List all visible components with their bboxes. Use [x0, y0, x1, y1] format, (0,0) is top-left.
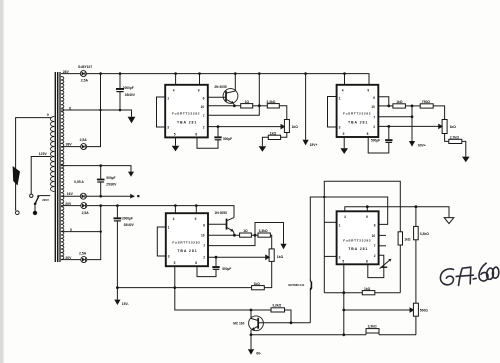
junction rail B / rail C crossing	[323, 196, 325, 198]
node 20V (upper)	[65, 202, 72, 206]
wire U2 pin10 to R4	[378, 105, 393, 107]
wire U2 pins 1-3 bracket	[328, 97, 337, 128]
resistor R6 2,7kohm	[449, 135, 462, 143]
node 0 (primary)	[47, 113, 49, 117]
wire R13 to feedback line	[399, 245, 401, 293]
wire +rail 28V rectified	[86, 74, 369, 85]
svg-text:3,3kΩ: 3,3kΩ	[272, 304, 281, 308]
svg-text:3,3kΩ: 3,3kΩ	[259, 229, 268, 233]
label 2,5A (D1)	[81, 79, 89, 83]
wire 28V line to diode	[61, 73, 81, 75]
resistor R7 1ohm	[240, 229, 252, 237]
transistor Q2 2N3055	[227, 206, 235, 236]
junction feedback / U4 pin5	[342, 291, 345, 294]
svg-text:5: 5	[174, 261, 176, 265]
junction dot 20V/0 crossing	[100, 230, 102, 232]
junction R7/R8	[254, 234, 257, 237]
svg-text:1: 1	[339, 224, 341, 228]
wire U3 pin9 to 20V rail	[195, 206, 197, 214]
node 16V	[67, 192, 74, 196]
svg-text:1Ω: 1Ω	[243, 229, 248, 233]
svg-text:35/40V: 35/40V	[125, 93, 136, 97]
switch S1	[33, 195, 39, 215]
junction R1/R2/rail	[258, 104, 261, 107]
label 2,5A (D4)	[82, 211, 90, 215]
svg-text:3: 3	[339, 255, 341, 259]
wire U3 pin2 to P3 wiper	[208, 255, 269, 259]
svg-text:6: 6	[203, 223, 205, 227]
svg-text:2: 2	[374, 254, 376, 258]
svg-text:16V: 16V	[67, 192, 74, 196]
svg-text:10: 10	[201, 105, 205, 109]
resistor R3 1kohm	[268, 131, 280, 139]
diode D5	[81, 257, 87, 263]
junction dot 38V/0 crossing	[99, 109, 101, 111]
svg-text:TBA 281: TBA 281	[348, 120, 368, 124]
wire U4 pin9 stub	[366, 207, 368, 212]
svg-text:FuSRTT23282: FuSRTT23282	[172, 112, 200, 116]
wire U1 pin8 loop to C4	[197, 137, 218, 148]
svg-text:1kΩ: 1kΩ	[277, 255, 284, 259]
svg-text:3: 3	[167, 126, 169, 130]
transformer T1 primary winding	[50, 117, 54, 192]
junction pin7/output	[411, 115, 414, 118]
potentiometer P3 1kohm	[269, 249, 283, 262]
wire R5 to P2 top	[433, 106, 444, 120]
junction R10/base	[290, 321, 293, 324]
wire U4 pin1 stub	[324, 221, 336, 223]
svg-text:10: 10	[201, 234, 205, 238]
label 500uF (C4)	[223, 137, 232, 141]
wire U2 pin8 loop to C5	[368, 137, 389, 153]
wire bottom rail	[251, 334, 416, 336]
svg-text:25/30V: 25/30V	[106, 182, 117, 186]
transistor Q1 2N3055	[223, 74, 238, 106]
op-amp regulator U4 TBA281 box	[337, 211, 379, 264]
resistor R12 1kohm	[362, 287, 375, 295]
svg-text:8: 8	[195, 261, 197, 265]
capacitor C1 2000uF	[116, 74, 124, 112]
terminal arrow (U3 raw)	[280, 244, 286, 249]
svg-text:FuSRTT23282: FuSRTT23282	[343, 112, 371, 116]
svg-text:8: 8	[366, 259, 368, 263]
svg-text:2: 2	[203, 126, 205, 130]
svg-text:TBA 281: TBA 281	[177, 249, 197, 253]
junction emitter/pin10 (U3)	[233, 234, 236, 237]
svg-text:9: 9	[366, 215, 368, 219]
svg-text:2,7kΩ: 2,7kΩ	[450, 135, 459, 139]
wire U3 pin4 to 20V rail	[174, 206, 176, 214]
wire R14 to P4 top	[415, 240, 417, 303]
wire output vertical to terminal	[411, 106, 413, 141]
resistor R2 3,3kohm	[266, 100, 279, 108]
transistor Q4 BC141 on rail B	[310, 280, 313, 323]
wire R4 to R5	[405, 105, 420, 107]
svg-text:2,5A: 2,5A	[79, 252, 87, 256]
svg-text:38V: 38V	[66, 142, 73, 146]
terminal arrow 15V-	[114, 288, 128, 306]
wire 0.05A winding top line with arrow terminal	[61, 166, 131, 172]
svg-text:220V: 220V	[42, 198, 49, 202]
wire R2 to P1 top	[279, 106, 287, 120]
ground (R6)	[462, 157, 470, 163]
label MC160 (Q3)	[233, 321, 244, 325]
wire primary 220V tap	[39, 195, 50, 197]
svg-text:3,3kΩ: 3,3kΩ	[420, 232, 429, 236]
wire R8 to P3 top	[270, 235, 271, 249]
label 500uF (C6)	[222, 267, 231, 271]
svg-text:1kΩ: 1kΩ	[270, 131, 277, 135]
wire U3 pin7 to divider junction	[208, 235, 255, 245]
wire U2 pin7 to output vertical	[378, 116, 412, 118]
svg-text:4: 4	[342, 89, 344, 93]
diode D3	[80, 193, 86, 199]
terminal circle mains L	[15, 211, 19, 215]
label 2N3055 (Q2)	[215, 211, 227, 215]
resistor R4 1kohm	[393, 100, 406, 108]
resistor R5 750ohm	[420, 100, 433, 108]
svg-text:9: 9	[195, 217, 197, 221]
svg-text:2: 2	[203, 256, 205, 260]
label 2,5A (D2)	[80, 138, 88, 142]
junction wiper / pin5 line	[342, 309, 345, 312]
wire 15V+ drop from rail	[305, 74, 307, 140]
wire U1 pin4 to rail	[175, 74, 177, 85]
label BC141 (Q4)	[288, 283, 304, 287]
wire U3 pins 1-3 bracket	[157, 227, 166, 256]
junction pin6/pin10	[387, 105, 390, 108]
svg-text:500Ω: 500Ω	[420, 308, 429, 312]
capacitor C3 2000uF	[114, 206, 122, 288]
wire P4 bottom to bottom rail	[415, 316, 417, 335]
svg-text:500µF: 500µF	[106, 176, 115, 180]
svg-text:1kΩ: 1kΩ	[396, 100, 403, 104]
svg-text:1kΩ: 1kΩ	[254, 282, 261, 286]
svg-text:TBA 281: TBA 281	[348, 247, 368, 251]
wire U2 pin5 to ground	[343, 137, 345, 148]
ground (top 0 line)	[128, 117, 136, 123]
junction dots 20V rail	[99, 204, 197, 207]
wire 20V rail (positive 15V raw)	[61, 205, 234, 207]
svg-text:60-: 60-	[256, 352, 261, 356]
scan edge strip	[0, 0, 4, 363]
wire U3 pin8 loop to C6	[197, 266, 216, 276]
ground (U2 pin5)	[340, 148, 348, 154]
resistor R9 1kohm	[252, 282, 265, 290]
label 500uF 25/30V (C2)	[106, 176, 117, 186]
op-amp regulator U1 TBA281 box	[165, 85, 208, 138]
potentiometer P2 1kohm	[442, 120, 456, 134]
wire negative common line	[117, 287, 251, 289]
svg-text:4: 4	[173, 89, 175, 93]
svg-text:5: 5	[174, 133, 176, 137]
svg-text:4: 4	[173, 217, 175, 221]
label S=BY107	[78, 65, 92, 69]
svg-text:2,5A: 2,5A	[82, 211, 90, 215]
wire U3 pin10 emitter sense	[208, 234, 240, 236]
wire feedback horizontal	[324, 292, 400, 294]
wire U1 pins 1-3 bracket	[157, 97, 166, 127]
trimmer arrow (U4 preset)	[380, 259, 392, 269]
svg-text:9: 9	[198, 89, 200, 93]
wire 20V lower line	[61, 259, 81, 261]
junction Q3 emitter	[250, 333, 253, 336]
svg-text:1: 1	[167, 97, 169, 101]
svg-text:6: 6	[373, 96, 375, 100]
svg-text:125V: 125V	[39, 152, 48, 156]
node 38V	[66, 142, 73, 146]
svg-text:1Ω: 1Ω	[245, 100, 250, 104]
wire divider junction to minus terminal arrow	[255, 223, 284, 244]
wire U4 pin8 loop to trimmer	[368, 255, 384, 277]
svg-text:60V+: 60V+	[418, 144, 426, 148]
svg-text:750Ω: 750Ω	[422, 100, 431, 104]
resistor R8 3,3kohm	[258, 229, 270, 237]
node 0 (top secondary)	[69, 106, 71, 110]
wire U4 pin10 stub	[379, 234, 386, 236]
wire Q3 base line	[259, 322, 310, 324]
wire U4 pin3 stub	[324, 255, 336, 257]
wire U4 pin5 vertical	[343, 264, 345, 335]
transistor Q3 MC160	[249, 310, 264, 335]
fuse / mains plug arrow	[13, 166, 20, 186]
svg-text:4: 4	[344, 215, 346, 219]
junction bottom rail / U4 pin5	[342, 333, 345, 336]
svg-text:FuSRTT23282: FuSRTT23282	[172, 240, 200, 244]
svg-text:2,5A: 2,5A	[81, 79, 89, 83]
svg-text:10: 10	[371, 105, 375, 109]
svg-text:3: 3	[339, 126, 341, 130]
resistor R1 1ohm	[241, 100, 253, 108]
op-amp regulator U3 TBA281 box	[166, 213, 208, 266]
svg-text:35/40V: 35/40V	[124, 223, 135, 227]
wire P3 bottom to negative common	[264, 261, 271, 287]
junction pin2/C5	[387, 125, 390, 128]
svg-text:500µF: 500µF	[371, 139, 380, 143]
wire 0 line to ground	[61, 110, 132, 117]
svg-text:7: 7	[203, 114, 205, 118]
wire rail B (pin6 loop)	[310, 197, 387, 281]
svg-text:6: 6	[374, 224, 376, 228]
node 0 (lower secondary)	[70, 228, 72, 232]
op-amp regulator U2 TBA281 box	[337, 85, 379, 137]
svg-text:15V-: 15V-	[122, 302, 129, 306]
label 500uF (C5)	[371, 139, 380, 143]
terminal arrow 15V+	[303, 140, 318, 147]
wire R6 to ground	[462, 141, 466, 156]
wire rail A (U4 supply) with hollow ground	[345, 207, 449, 218]
svg-text:S=BY107: S=BY107	[78, 65, 92, 69]
wire R3 to ground	[262, 137, 268, 146]
terminal circle switch contact 125V	[30, 194, 33, 197]
transformer T1 core	[55, 72, 60, 262]
wire U2 pin4 to rail	[344, 74, 346, 85]
U3 pin numbers	[168, 217, 205, 265]
wire 38V feed up to rail	[87, 74, 101, 147]
capacitor C4 500uF	[214, 127, 221, 140]
svg-text:1kΩ: 1kΩ	[404, 238, 411, 242]
svg-text:2N·3055: 2N·3055	[214, 85, 226, 89]
capacitor C2 500uF	[97, 166, 105, 197]
U1 pin numbers	[167, 89, 205, 137]
svg-text:FuSRTT23282: FuSRTT23282	[343, 238, 371, 242]
node 220V label	[42, 198, 49, 202]
wire P2 bottom to R6	[445, 134, 449, 142]
wire U1 pin10 emitter sense	[208, 105, 241, 107]
junction dot C2 bottom	[99, 195, 102, 198]
ground hollow (rail A)	[444, 218, 454, 224]
svg-text:1: 1	[168, 225, 170, 229]
junction emitter/pin10	[233, 104, 236, 107]
svg-text:1kΩ: 1kΩ	[364, 287, 371, 291]
wire U3 pin5 down	[175, 266, 251, 310]
svg-text:2: 2	[373, 125, 375, 129]
label 0,05 A	[74, 180, 84, 184]
svg-text:MC 160: MC 160	[233, 321, 244, 325]
junction Q3 collector line	[250, 309, 253, 312]
resistor R13 1kohm vertical	[398, 232, 411, 245]
wire U2 pin2 to P2 wiper	[378, 124, 442, 128]
junction dot 0.05A top	[99, 164, 102, 167]
capacitor C6 500uF	[212, 257, 219, 269]
potentiometer P1 1kohm	[284, 120, 298, 133]
svg-text:5: 5	[343, 132, 345, 136]
wire U1 pin2 to P1 wiper	[208, 125, 285, 129]
svg-text:2,5A: 2,5A	[80, 138, 88, 142]
svg-text:3,3kΩ: 3,3kΩ	[368, 325, 377, 329]
wire R7 to R8	[251, 234, 258, 236]
wire primary 0 tap	[16, 118, 52, 211]
junction R4/R5 output	[411, 105, 414, 108]
wire 20V lower feed up	[87, 206, 101, 260]
wire U1 pin5 to ground	[175, 137, 177, 145]
terminal arrow 60V+	[409, 141, 426, 148]
label 2000uF 35/40V (C3)	[122, 216, 135, 227]
svg-text:7: 7	[374, 244, 376, 248]
svg-text:1kΩ: 1kΩ	[450, 125, 457, 129]
U2 pin numbers	[339, 89, 376, 137]
svg-text:8: 8	[367, 132, 369, 136]
resistor R11 3,3kohm	[366, 325, 379, 335]
capacitor C5 500uF	[385, 126, 392, 142]
svg-text:7: 7	[373, 115, 375, 119]
svg-text:2000µF: 2000µF	[123, 86, 134, 90]
junction pin2/C4	[217, 125, 220, 128]
junction dots rail A	[366, 205, 417, 208]
resistor R10 3,3kohm	[251, 304, 285, 312]
node 125V label	[39, 152, 48, 156]
svg-text:2N·3055: 2N·3055	[215, 211, 227, 215]
potentiometer P4 500ohm	[413, 303, 428, 316]
wire P4 wiper from pin5 line	[344, 308, 414, 312]
svg-text:8: 8	[195, 133, 197, 137]
wire U1 pin7 to divider junction	[208, 106, 259, 115]
svg-text:6: 6	[203, 96, 205, 100]
svg-text:10: 10	[372, 234, 376, 238]
junction dots on +rail	[99, 72, 346, 75]
svg-text:0,05 A: 0,05 A	[74, 180, 84, 184]
svg-text:3,3kΩ: 3,3kΩ	[266, 100, 275, 104]
svg-text:TBA 281: TBA 281	[177, 120, 197, 124]
wire R1 to R2 with rail drop	[253, 74, 268, 106]
U4 pin numbers	[339, 215, 376, 263]
wire P1 bottom to R3	[281, 133, 287, 138]
wire 38V line	[61, 146, 81, 148]
wire U1 pin6 to Q1 base	[208, 96, 226, 98]
svg-text:15V+: 15V+	[310, 143, 318, 147]
wire rail C (pins 1-3 feedback)	[324, 181, 400, 293]
wire U1 pin9 to rail	[199, 74, 201, 85]
svg-text:2000µF: 2000µF	[122, 216, 133, 220]
svg-text:3: 3	[168, 254, 170, 258]
svg-text:1: 1	[339, 97, 341, 101]
terminal arrow right (16V out)	[130, 194, 139, 199]
diode D4	[81, 203, 87, 209]
wire 0 center tap line	[61, 231, 101, 233]
svg-text:7: 7	[203, 244, 205, 248]
ground (R3)	[259, 146, 267, 152]
node 20V (lower)	[65, 256, 72, 260]
junction dots negative common	[116, 286, 176, 289]
svg-text:BD788C141: BD788C141	[288, 283, 304, 287]
wire R10 to Q3 base node	[285, 310, 292, 323]
svg-text:9: 9	[367, 89, 369, 93]
ground (U1 pin5)	[172, 146, 180, 152]
wire primary 125V tap	[31, 157, 51, 195]
label 2000uF 35/40V (C1)	[123, 86, 136, 97]
svg-text:0: 0	[47, 113, 49, 117]
handwritten GA-600	[440, 263, 498, 285]
node 28V	[63, 70, 70, 74]
svg-text:1kΩ: 1kΩ	[292, 125, 299, 129]
junction pin2/C6	[215, 256, 218, 259]
diode D2	[81, 144, 87, 150]
terminal arrow 60V-	[248, 335, 261, 356]
svg-text:5: 5	[342, 259, 344, 263]
label 2,5A (D5)	[79, 252, 87, 256]
resistor R14 3,3kohm vertical	[414, 207, 430, 240]
wire U2 pin6 join pin10	[378, 97, 389, 106]
diode D1 BY107	[80, 71, 86, 77]
wire U3 pin6 to Q2 base	[208, 223, 227, 225]
wire 16V line with right arrow terminal	[61, 195, 130, 197]
transformer T1 secondary winding	[61, 77, 64, 260]
label 2N3055 (Q1)	[214, 85, 226, 89]
svg-text:500µF: 500µF	[223, 137, 232, 141]
terminal arrow (pilot feed)	[128, 172, 134, 177]
wire U4 pin7 stub	[379, 245, 386, 247]
svg-text:500µF: 500µF	[222, 267, 231, 271]
